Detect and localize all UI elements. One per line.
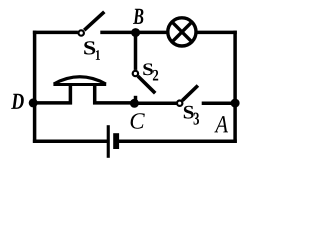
wire node C to S3 xyxy=(134,101,177,105)
label A xyxy=(214,116,228,132)
wire S2 contact stub to node C xyxy=(134,96,138,105)
switch S3 xyxy=(177,86,198,106)
wire bottom-left to battery xyxy=(33,139,107,143)
wire S1 contact to lamp through node B xyxy=(100,31,167,35)
label B xyxy=(133,9,143,24)
label C xyxy=(131,113,145,129)
wire node B down to S2 xyxy=(134,33,138,70)
wire bell right leg to node C xyxy=(93,101,136,105)
label S1 xyxy=(84,41,100,60)
wire node D to bell left leg xyxy=(33,101,72,105)
label S3 xyxy=(184,106,199,125)
wire right vertical through node A xyxy=(233,31,237,143)
lamp xyxy=(168,18,196,46)
wire S3 contact to node A xyxy=(202,101,236,105)
node C xyxy=(130,99,139,108)
switch S1 xyxy=(79,12,105,36)
wire lamp to top-right corner xyxy=(197,31,237,35)
wire top-left to S1 xyxy=(33,31,78,35)
node A xyxy=(231,99,240,108)
node B xyxy=(131,28,140,37)
battery xyxy=(107,125,119,158)
wire left vertical D branch xyxy=(33,31,37,143)
switch S2 xyxy=(133,71,156,93)
node D xyxy=(29,98,38,107)
label S2 xyxy=(143,63,158,80)
label D xyxy=(11,94,24,109)
bell xyxy=(53,77,106,105)
wire battery to bottom-right corner xyxy=(119,139,237,143)
